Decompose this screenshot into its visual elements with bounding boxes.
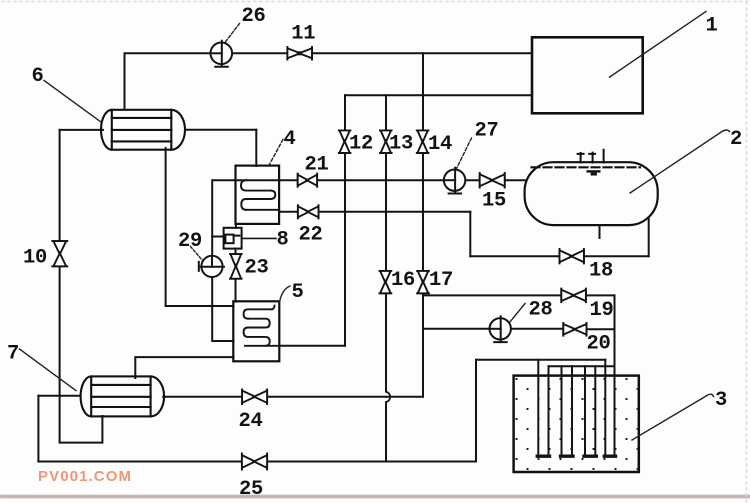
wire box8 left connector: [212, 236, 224, 238]
svg-text:11: 11: [291, 23, 315, 46]
valve 23: [230, 254, 242, 279]
wire HX7 left pipe: [38, 395, 79, 397]
svg-text:24: 24: [239, 410, 263, 433]
wire corner drop x470.3: [469, 212, 471, 256]
svg-text:29: 29: [178, 230, 202, 253]
utube leg 3L: [584, 366, 586, 455]
wire hop over valve24 line: [386, 392, 390, 403]
wire left drop to valve25 line: [37, 396, 39, 462]
wire HX7 top feed: [135, 357, 233, 378]
leader line 4 dashed: [269, 140, 283, 166]
wire box8 top stub: [235, 224, 237, 228]
leader line 5: [280, 286, 290, 302]
utube bend 1: [537, 455, 549, 458]
utube leg 1R: [548, 366, 550, 455]
wire valve17 drop: [422, 293, 424, 397]
wire riser x476: [475, 360, 477, 462]
wire pump28 line y328.7: [423, 328, 563, 330]
svg-text:21: 21: [305, 154, 329, 177]
valve 15: [480, 173, 505, 188]
utube bend 3: [584, 455, 596, 458]
svg-text:22: 22: [299, 224, 323, 247]
wire suction line y295.3: [423, 294, 561, 296]
leader line 6: [44, 81, 101, 123]
wire valve22 to valve18 line: [279, 211, 470, 213]
coil of HX5: [244, 306, 280, 346]
wire valve20 right: [587, 328, 614, 330]
utube leg 2R: [571, 366, 573, 455]
compressor unit box 1: [532, 37, 643, 113]
wire HX6 left pipe: [60, 129, 103, 131]
wire HX6 right pipe: [186, 129, 256, 131]
valve 11: [287, 47, 312, 60]
wire HX4 top feed: [255, 130, 257, 166]
valve 10: [52, 241, 67, 266]
wire header y95.2: [345, 94, 532, 96]
svg-text:PV001.COM: PV001.COM: [38, 468, 132, 485]
wire valve16 drop lower: [385, 402, 387, 461]
svg-text:14: 14: [428, 133, 452, 156]
svg-text:17: 17: [429, 269, 453, 292]
wire valve12 riser: [344, 95, 346, 130]
wire pump29 outlet to HX5: [212, 277, 233, 341]
decorative right dotted rule: [746, 2, 748, 503]
valve 21: [298, 174, 317, 187]
wire ground header H2: [549, 365, 615, 367]
utube leg 4R riser: [614, 295, 616, 455]
svg-text:10: 10: [23, 247, 47, 270]
wire tank bottom stub: [599, 225, 601, 238]
wire valve10 drop and HX7 bottom loop: [60, 266, 103, 442]
valve 14: [417, 130, 429, 153]
wire valve19 right and drop: [586, 295, 615, 366]
wire drop x212 to pump29: [211, 180, 213, 256]
svg-text:18: 18: [589, 260, 613, 283]
svg-text:6: 6: [32, 65, 44, 88]
leader line 2: [630, 130, 730, 193]
leader line 7: [19, 349, 76, 391]
svg-text:2: 2: [730, 128, 742, 151]
svg-text:5: 5: [292, 281, 304, 304]
wire valve16 drop upper: [385, 293, 387, 391]
valve 13: [380, 130, 392, 153]
svg-text:15: 15: [482, 190, 506, 213]
pump 29: [199, 256, 224, 277]
utube leg 1L: [537, 360, 539, 455]
decorative top dotted rule: [2, 1, 748, 3]
wire condenser top feed: [124, 53, 126, 109]
shell-and-tube heat exchanger 7: [81, 376, 165, 416]
leader line 28: [510, 304, 526, 323]
utube bend 2: [561, 455, 574, 458]
svg-text:27: 27: [475, 119, 499, 142]
leader line 1: [610, 12, 707, 78]
valve 12: [339, 130, 351, 153]
wire valve12 drop to HX5 outlet corner: [344, 153, 346, 346]
wire valve13 to valve16: [385, 153, 387, 271]
wire valve13 riser: [385, 95, 387, 130]
wire HX5 coil outlet: [279, 345, 345, 347]
wire liquid line y180.2: [213, 179, 525, 181]
wire ground header H1: [476, 359, 605, 361]
svg-text:12: 12: [349, 133, 373, 156]
valve 25: [242, 454, 267, 470]
pump 27: [444, 168, 465, 194]
leader line 29 dashed: [191, 247, 203, 261]
wire top main line: [125, 52, 532, 54]
utube leg 2L: [561, 366, 563, 455]
shell-and-tube heat exchanger 6: [101, 110, 185, 150]
valve 22: [298, 205, 319, 218]
valve 18: [560, 249, 584, 263]
pump 26: [211, 41, 233, 67]
wire valve24 line: [163, 396, 423, 398]
heat exchanger 5 shell: [233, 301, 279, 361]
heat exchanger 4 shell: [236, 166, 280, 224]
svg-text:7: 7: [7, 343, 19, 366]
svg-text:16: 16: [391, 269, 415, 292]
svg-text:26: 26: [242, 5, 266, 28]
svg-text:28: 28: [529, 299, 553, 322]
wire valve23 drop to HX5: [235, 278, 237, 302]
wire valve10 riser: [59, 130, 61, 241]
svg-text:13: 13: [389, 133, 413, 156]
svg-text:4: 4: [284, 128, 296, 151]
svg-text:8: 8: [277, 229, 289, 252]
wire valve25 bottom line: [38, 461, 476, 463]
svg-text:1: 1: [706, 15, 718, 38]
wire box8 bottom stub: [235, 249, 237, 254]
wire tank right riser: [648, 219, 650, 256]
coil of HX4: [241, 180, 279, 212]
decorative bottom dotted rule: [2, 495, 749, 499]
wire valve14 to valve17: [422, 153, 424, 271]
valve 24: [242, 389, 267, 404]
utube leg 4L: [604, 360, 606, 455]
valve 19: [561, 289, 586, 303]
hot water tank 2: [525, 150, 658, 225]
utube bend 4: [604, 455, 615, 458]
svg-text:20: 20: [587, 333, 611, 356]
wire HX6 bottom drop: [165, 148, 167, 306]
valve 20: [563, 323, 586, 336]
expansion float box 8: [224, 228, 242, 249]
svg-text:23: 23: [245, 257, 269, 280]
leader 8: [242, 237, 276, 239]
utube leg 3R: [594, 366, 596, 455]
wire valve18 line: [470, 255, 648, 257]
leader line 27 dashed: [457, 138, 472, 169]
leader line 3: [632, 394, 714, 440]
svg-text:3: 3: [715, 389, 727, 412]
valve 16: [380, 271, 392, 293]
wire HX5 top-left feed: [166, 305, 234, 307]
valve 17: [417, 271, 429, 293]
pump 28: [490, 316, 511, 342]
svg-text:19: 19: [590, 299, 614, 322]
leader line 26 dashed: [225, 24, 240, 44]
wire compressor column drop x423: [422, 53, 424, 130]
